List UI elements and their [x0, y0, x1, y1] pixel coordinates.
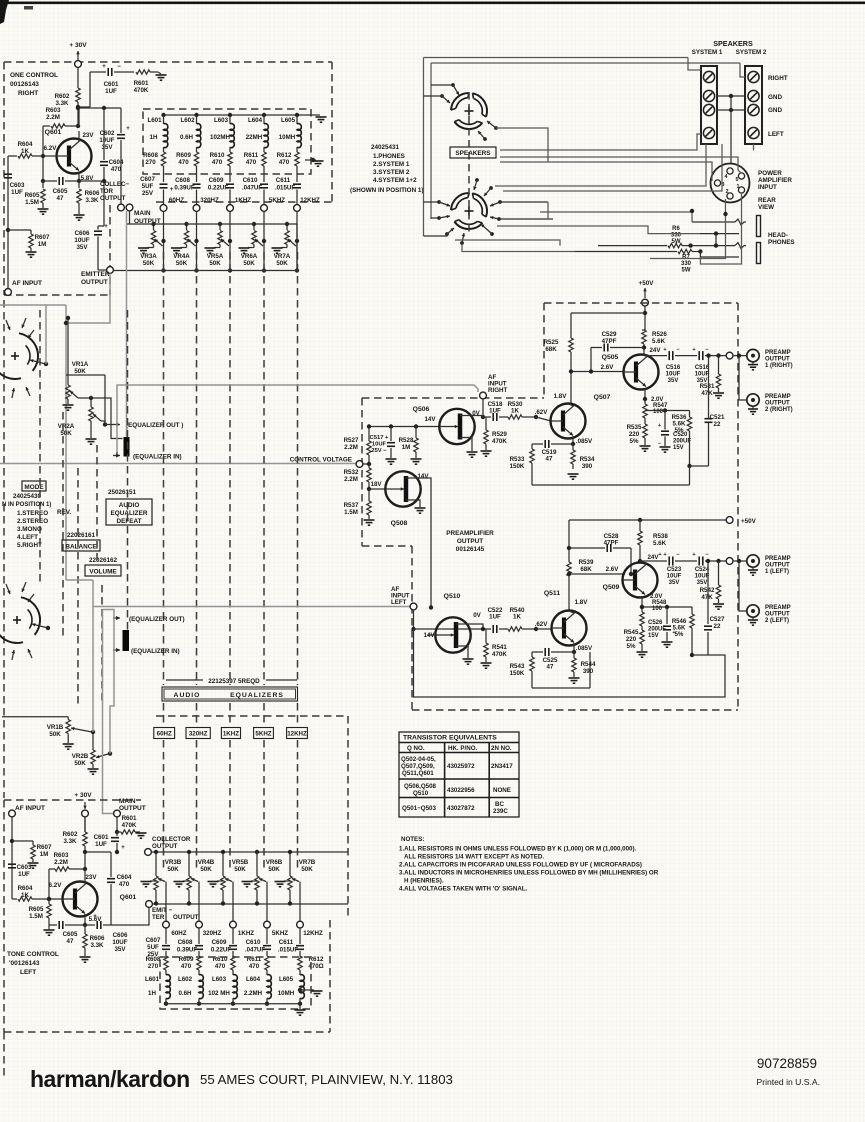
- wire eq arrows riser bottom: [103, 610, 115, 654]
- resistor R538 5.6K: [639, 520, 641, 531]
- svg-text:REV.: REV.: [57, 509, 71, 516]
- terminal COLLECTOR OUTPUT bottom: [145, 849, 152, 856]
- svg-text:PHONES: PHONES: [768, 239, 795, 246]
- DIN pin 1: [738, 187, 744, 193]
- svg-text:SYSTEM 2: SYSTEM 2: [736, 49, 767, 56]
- svg-text:Q501−Q503: Q501−Q503: [402, 805, 436, 812]
- svg-text:(SHOWN IN POSITION 1): (SHOWN IN POSITION 1): [350, 187, 423, 194]
- svg-text:.62V: .62V: [535, 621, 549, 628]
- switch contact arrow: [451, 83, 455, 87]
- svg-text:22: 22: [714, 421, 721, 428]
- svg-text:1M: 1M: [40, 851, 49, 858]
- potentiometer VR5A 50K: [219, 224, 221, 230]
- svg-text:AUDIO: AUDIO: [119, 502, 140, 509]
- svg-text:1 (RIGHT): 1 (RIGHT): [765, 363, 793, 369]
- svg-text:.085V: .085V: [576, 645, 593, 652]
- svg-text:23V: 23V: [85, 874, 97, 881]
- svg-text:+: +: [663, 347, 666, 353]
- resistor R541 470K: [485, 629, 487, 643]
- eq column wire 60HZ: [163, 211, 165, 270]
- ground VR3A: [138, 247, 149, 249]
- svg-text:OUTPUT: OUTPUT: [457, 538, 483, 545]
- svg-text:POWER: POWER: [758, 170, 782, 177]
- inductor L605 10MH: [295, 113, 299, 117]
- resistor R607 1M: [8, 229, 31, 231]
- svg-text:R546: R546: [672, 619, 687, 625]
- switch contact arrow: [445, 232, 449, 236]
- svg-text:5%: 5%: [675, 427, 684, 434]
- terminal eq column 320HZ: [193, 205, 200, 212]
- branch bootstrap left: [642, 606, 692, 608]
- svg-text:C608: C608: [178, 939, 193, 946]
- svg-text:3.3K: 3.3K: [85, 197, 99, 204]
- wire to jack 2 left: [739, 561, 746, 611]
- capacitor C602 10UF 35V: [120, 108, 122, 133]
- potentiometer VR6A 50K: [253, 224, 255, 230]
- wire Q511 emitter: [573, 643, 575, 652]
- svg-text:2.2M: 2.2M: [344, 444, 358, 451]
- screw terminal: [748, 90, 759, 101]
- svg-text:R606: R606: [85, 190, 100, 197]
- branch to bootstrap right: [645, 410, 690, 412]
- svg-text:R7: R7: [682, 255, 690, 261]
- svg-text:VR7A: VR7A: [274, 253, 291, 260]
- svg-text:VR1B: VR1B: [47, 724, 64, 731]
- svg-text:43022956: 43022956: [447, 787, 475, 794]
- svg-text:TRANSISTOR EQUIVALENTS: TRANSISTOR EQUIVALENTS: [403, 735, 497, 742]
- resistor R601 470K bottom: [117, 831, 121, 833]
- svg-text:C607: C607: [146, 937, 161, 944]
- switch contact arrow: [437, 216, 441, 220]
- ground R607 bottom: [28, 862, 39, 864]
- svg-text:R537: R537: [344, 502, 359, 509]
- wire Q509 base: [569, 573, 625, 575]
- svg-text:50K: 50K: [276, 260, 288, 267]
- svg-text:C601: C601: [94, 834, 109, 841]
- svg-text:AMPLIFIER: AMPLIFIER: [758, 177, 792, 184]
- jack PREAMP OUTPUT 2 RIGHT: [747, 394, 759, 406]
- equalizer linkage dashed lines: [127, 310, 129, 645]
- svg-text:+: +: [663, 552, 666, 558]
- svg-text:OUTPUT: OUTPUT: [119, 805, 146, 812]
- svg-text:35V: 35V: [114, 946, 126, 953]
- svg-text:ONE CONTROL: ONE CONTROL: [10, 72, 58, 79]
- terminal preamp output left: [726, 558, 733, 565]
- ground R528: [411, 458, 422, 460]
- FET Q506: [439, 409, 474, 444]
- svg-text:1UF: 1UF: [105, 88, 117, 95]
- svg-text:50K: 50K: [74, 368, 86, 375]
- potentiometer VR4A 50K: [186, 224, 188, 230]
- svg-text:50K: 50K: [243, 260, 255, 267]
- svg-text:R545: R545: [624, 629, 639, 636]
- svg-text:VR2A: VR2A: [58, 423, 75, 430]
- wire +50V top rail right: [571, 312, 645, 314]
- svg-text:OUTPUT: OUTPUT: [765, 611, 790, 617]
- feedback wire left channel 2: [414, 629, 726, 697]
- potentiometer VR2A 50K: [78, 398, 91, 407]
- wire Q508 gate: [369, 488, 385, 490]
- capacitor C524 10UF 35V: [698, 557, 700, 566]
- svg-text:−: −: [676, 552, 679, 558]
- svg-text:+50V: +50V: [741, 518, 757, 525]
- ground R607: [26, 251, 37, 253]
- svg-text:VR7B: VR7B: [299, 859, 316, 866]
- terminal eq column 12KHZ bottom: [297, 921, 304, 928]
- svg-text:COLLEC−: COLLEC−: [100, 181, 129, 188]
- wire main-output riser bottom: [103, 610, 114, 814]
- svg-text:1.5M: 1.5M: [344, 509, 358, 516]
- svg-text:C516: C516: [695, 365, 710, 371]
- terminal eq column 60HZ: [160, 205, 167, 212]
- capacitor C527 22: [690, 653, 694, 657]
- equalizer defeat switch bar (bottom): [123, 630, 130, 651]
- svg-text:R535: R535: [627, 424, 642, 431]
- svg-text:25026151: 25026151: [108, 489, 137, 496]
- svg-text:H (HENRIES).: H (HENRIES).: [404, 878, 444, 885]
- svg-text:+: +: [104, 224, 108, 230]
- svg-text:N IN POSITION 1): N IN POSITION 1): [2, 502, 51, 508]
- wire main output bottom entry: [116, 809, 118, 811]
- svg-text:50K: 50K: [60, 430, 72, 437]
- ground VR4B: [183, 880, 189, 882]
- resistor R527 2.2M: [368, 427, 370, 442]
- ground VR6B: [251, 880, 257, 882]
- svg-text:R532: R532: [344, 469, 359, 476]
- terminal AF input right: [480, 392, 487, 399]
- inductor L602 0.6H bottom: [199, 975, 203, 999]
- svg-text:OUTPUT: OUTPUT: [765, 356, 790, 362]
- svg-text:5.6K: 5.6K: [673, 625, 686, 631]
- svg-text:R541: R541: [492, 644, 507, 651]
- svg-text:−: −: [676, 347, 679, 353]
- equalizer defeat switch bar (top): [124, 437, 130, 457]
- wiper riser terminal 320HZ: [198, 882, 200, 922]
- wire AF input bottom riser: [11, 817, 13, 899]
- wire headphone feed 2: [497, 226, 700, 234]
- svg-text:R602: R602: [63, 831, 78, 838]
- wire emitter bus bottom: [152, 903, 348, 905]
- wire speakers right feed: [495, 144, 706, 186]
- svg-text:4.SYSTEM 1+2: 4.SYSTEM 1+2: [373, 177, 417, 184]
- svg-text:1KHZ: 1KHZ: [235, 197, 251, 204]
- inductor L601 1H: [161, 113, 165, 117]
- svg-text:(EQUALIZER IN): (EQUALIZER IN): [131, 648, 180, 655]
- wire defeat bar to VR2B wiper: [110, 653, 114, 754]
- svg-text:470: 470: [178, 159, 189, 166]
- ground R601: [158, 72, 161, 74]
- eq column wire 5KHZ: [263, 211, 265, 270]
- svg-text:50K: 50K: [301, 866, 313, 873]
- svg-text:C605: C605: [63, 931, 78, 938]
- svg-text:R605: R605: [25, 192, 40, 199]
- transistor Q505: [624, 355, 659, 390]
- resistor R601 470K: [136, 70, 150, 74]
- capacitor C525 47: [551, 651, 574, 653]
- wire Q505 collector: [643, 354, 645, 356]
- transistor Q511: [552, 611, 587, 646]
- capacitor C609 0.22UF: [226, 183, 234, 185]
- headphone jack 2: [691, 245, 735, 247]
- corner registration mark: [0, 0, 9, 24]
- svg-text:22026161: 22026161: [67, 532, 96, 539]
- capacitor C601 1UF: [90, 71, 106, 73]
- svg-text:24025430: 24025430: [13, 493, 42, 500]
- eq column wire 320HZ: [196, 211, 198, 270]
- wire rotary2 contact runs: [547, 202, 549, 219]
- capacitor C605 47: [58, 177, 60, 185]
- wire Q508 drain riser: [418, 478, 431, 608]
- ground VR3B: [150, 880, 156, 882]
- svg-text:47PF: 47PF: [602, 338, 617, 345]
- resistor R604 1K bottom: [12, 898, 17, 900]
- ground C520: [660, 446, 671, 448]
- wire rotary1 contact runs: [496, 128, 548, 162]
- capacitor C608 0.39UF: [193, 183, 201, 185]
- resistor R533 150K: [531, 444, 533, 449]
- svg-text:RIGHT: RIGHT: [18, 90, 38, 97]
- svg-text:SYSTEM 1: SYSTEM 1: [692, 49, 723, 56]
- terminal eq column 12KHZ: [294, 205, 301, 212]
- resistor R526 5.6K: [643, 311, 647, 315]
- svg-text:R609: R609: [176, 152, 191, 159]
- resistor R546 5.6K 5%: [691, 607, 693, 614]
- svg-text:L602: L602: [180, 117, 195, 124]
- svg-text:1M: 1M: [402, 444, 411, 451]
- potentiometer VR1B 50K: [66, 720, 70, 734]
- svg-text:12KHZ: 12KHZ: [287, 731, 307, 738]
- svg-text:Q601: Q601: [45, 129, 62, 136]
- svg-text:Q502-04-05,: Q502-04-05,: [401, 756, 436, 763]
- ground VR7B: [284, 880, 290, 882]
- inductor L603 102 MH bottom: [233, 975, 237, 999]
- svg-text:C611: C611: [279, 939, 294, 946]
- svg-text:5%: 5%: [675, 632, 684, 638]
- svg-text:5KHZ: 5KHZ: [269, 197, 285, 204]
- jack PREAMP OUTPUT 1 LEFT: [747, 555, 759, 567]
- svg-text:50K: 50K: [143, 260, 155, 267]
- terminal +50V left: [726, 517, 733, 524]
- ground C517: [386, 458, 397, 460]
- FET Q510: [435, 617, 470, 652]
- ground R606 bottom: [80, 956, 91, 958]
- svg-text:C523: C523: [667, 567, 682, 573]
- DIN pin 2: [727, 193, 733, 199]
- svg-text:R531: R531: [700, 383, 715, 390]
- svg-text:R529: R529: [492, 431, 507, 438]
- resistor R609 470: [196, 147, 198, 152]
- svg-text:50K: 50K: [49, 731, 61, 738]
- resistor R606 3.3K bottom: [84, 925, 86, 934]
- wire Q511 collector: [569, 611, 574, 613]
- wire VR2B wiper: [108, 751, 112, 755]
- svg-text:R603: R603: [46, 107, 61, 114]
- svg-text:AF INPUT: AF INPUT: [15, 805, 45, 812]
- equalizer in arrow (bottom): [113, 649, 120, 651]
- terminal +30V bottom: [82, 810, 89, 817]
- svg-text:C527: C527: [710, 616, 725, 623]
- wire Q510 drain: [468, 624, 483, 629]
- terminal AF INPUT: [5, 289, 12, 296]
- svg-text:390: 390: [582, 463, 593, 470]
- svg-text:R607: R607: [37, 844, 52, 851]
- svg-text:1H: 1H: [150, 134, 158, 141]
- svg-text:LEFT: LEFT: [768, 131, 784, 138]
- svg-text:R604: R604: [18, 885, 33, 892]
- ground Q508 source: [415, 507, 426, 509]
- svg-text:Q506,Q508: Q506,Q508: [404, 783, 437, 790]
- svg-text:C521: C521: [710, 414, 725, 421]
- svg-text:1UF: 1UF: [489, 614, 501, 621]
- ground R605 bottom: [44, 929, 55, 931]
- svg-text:C606: C606: [75, 230, 90, 237]
- svg-text:47K: 47K: [701, 390, 713, 397]
- svg-text:EMIT −: EMIT −: [152, 907, 172, 914]
- resistor R536 5.6K 5%: [689, 411, 691, 418]
- jack PREAMP OUTPUT 1 RIGHT: [747, 349, 759, 361]
- label box SPEAKERS: [450, 147, 496, 158]
- node R602/R603 junction: [76, 105, 80, 109]
- capacitor C521 22: [687, 464, 691, 468]
- switch contact arrow: [440, 94, 444, 98]
- capacitor C601 1UF bottom: [116, 832, 118, 836]
- svg-text:C601: C601: [104, 81, 119, 88]
- svg-text:470: 470: [212, 159, 223, 166]
- svg-text:470K: 470K: [492, 651, 507, 658]
- svg-text:C526: C526: [648, 620, 663, 626]
- mode lower contact arrows: [6, 584, 10, 594]
- wire Q507 emitter: [572, 436, 574, 444]
- switch contact arrow: [460, 241, 464, 245]
- wire Q601L collector: [84, 852, 86, 884]
- svg-text:6.2V: 6.2V: [49, 882, 63, 889]
- svg-text:1.8V: 1.8V: [554, 393, 568, 400]
- svg-text:VR5B: VR5B: [232, 859, 249, 866]
- svg-text:1.ALL RESISTORS IN OHMS UNLES: 1.ALL RESISTORS IN OHMS UNLESS FOLLOWED …: [399, 846, 637, 853]
- svg-text:R611: R611: [244, 152, 259, 159]
- svg-text:ALL RESISTORS 1/4 WATT EXCEPT: ALL RESISTORS 1/4 WATT EXCEPT AS NOTED.: [404, 854, 544, 861]
- svg-text:OUTPUT: OUTPUT: [173, 914, 199, 921]
- wire to system1 left: [500, 134, 701, 150]
- capacitor C611 .015UF bottom: [296, 945, 304, 947]
- resistor R606 3.3K: [78, 181, 80, 188]
- svg-text:10UF: 10UF: [74, 237, 89, 244]
- svg-text:R533: R533: [510, 456, 525, 463]
- svg-text:R543: R543: [510, 663, 525, 670]
- wire mode wiper to volume rail: [46, 305, 66, 364]
- svg-text:4.LEFT: 4.LEFT: [17, 534, 38, 541]
- svg-text:+: +: [658, 423, 661, 429]
- svg-text:MAIN: MAIN: [134, 210, 151, 217]
- svg-text:CONTROL VOLTAGE: CONTROL VOLTAGE: [290, 457, 352, 464]
- svg-text:R606: R606: [90, 935, 105, 942]
- svg-text:VR4B: VR4B: [198, 859, 215, 866]
- wire AF input left run: [66, 579, 93, 581]
- svg-text:2.2M: 2.2M: [46, 114, 60, 121]
- svg-text:50K: 50K: [234, 866, 246, 873]
- svg-text:PREAMPLIFIER: PREAMPLIFIER: [446, 530, 494, 537]
- svg-text:C602: C602: [100, 130, 115, 137]
- wire Q510 source: [467, 646, 469, 658]
- svg-text:1K: 1K: [513, 614, 521, 621]
- gate bias rail Q506: [369, 426, 440, 428]
- svg-text:25V: 25V: [142, 190, 154, 197]
- dashed enclosure - tone control right / equalizer board (top): [4, 61, 332, 63]
- terminal eq column 320HZ bottom: [196, 921, 203, 928]
- svg-text:PREAMP: PREAMP: [765, 556, 791, 562]
- transistor Q601 (right): [57, 139, 92, 174]
- svg-text:harman/kardon: harman/kardon: [30, 1066, 190, 1092]
- feedback wire right channel: [532, 484, 690, 486]
- FET Q508: [385, 471, 420, 506]
- bottom bus emitter-output: [113, 270, 297, 272]
- mode switch contact arrows: [6, 320, 10, 330]
- capacitor C526 200UF 15V: [666, 607, 668, 624]
- svg-text:15V: 15V: [673, 445, 684, 451]
- svg-text:24025431: 24025431: [371, 144, 400, 151]
- svg-text:C604: C604: [109, 159, 124, 166]
- svg-text:43027872: 43027872: [447, 805, 475, 812]
- ground R605: [38, 208, 49, 210]
- svg-text:Printed in U.S.A.: Printed in U.S.A.: [756, 1077, 820, 1087]
- ground VR5A: [205, 247, 216, 249]
- wire speakers right feed 2: [503, 144, 722, 191]
- svg-text:AF INPUT: AF INPUT: [12, 280, 42, 287]
- svg-text:LEFT: LEFT: [391, 599, 407, 606]
- svg-text:00126143: 00126143: [10, 81, 39, 88]
- potentiometer VR7A 50K: [286, 224, 288, 230]
- svg-text:470K: 470K: [492, 438, 507, 445]
- dashed enclosure tone control left (bottom): [4, 799, 141, 801]
- svg-text:47K: 47K: [701, 594, 713, 601]
- svg-text:470: 470: [111, 166, 122, 173]
- ground VR1B: [63, 743, 74, 745]
- inductor L601 1H bottom: [166, 975, 170, 999]
- label box AUDIO EQUALIZERS (double border): [162, 687, 298, 701]
- wire base-bias left rail: [42, 126, 44, 181]
- svg-text:+: +: [692, 347, 695, 353]
- svg-text:3.ALL INDUCTORS IN MICROHENRI: 3.ALL INDUCTORS IN MICROHENRIES UNLESS F…: [399, 870, 659, 877]
- svg-text:R528: R528: [399, 437, 414, 444]
- inductor L604 2.2MH bottom: [267, 975, 271, 999]
- wire VR1B top feed: [2, 716, 68, 718]
- svg-text:VR6A: VR6A: [241, 253, 258, 260]
- wire emitter-output run to mode area: [66, 273, 110, 323]
- svg-text:47: 47: [547, 664, 554, 671]
- resistor R602 3.3K bottom: [83, 832, 87, 846]
- page top edge scan line: [0, 2, 865, 5]
- svg-text:23V: 23V: [82, 132, 94, 139]
- svg-text:5W: 5W: [682, 268, 691, 274]
- svg-text:0V: 0V: [473, 612, 481, 619]
- svg-text:270: 270: [145, 159, 156, 166]
- svg-text:Q510: Q510: [413, 790, 429, 797]
- resistor R525 68K: [570, 313, 572, 338]
- svg-text:2.2M: 2.2M: [54, 859, 68, 866]
- terminal AF input left: [410, 603, 417, 610]
- svg-text:R538: R538: [653, 533, 668, 540]
- gnd link wires between strips: [717, 95, 745, 97]
- screw terminal: [703, 90, 714, 101]
- svg-text:TER: TER: [152, 914, 165, 921]
- svg-text:Q NO.: Q NO.: [407, 745, 425, 752]
- svg-text:10UF: 10UF: [372, 441, 387, 447]
- svg-text:C517 +: C517 +: [370, 435, 389, 441]
- ground VR4A: [171, 247, 182, 249]
- wire Q507 collector: [569, 404, 573, 406]
- svg-text:TONE CONTROL: TONE CONTROL: [7, 951, 59, 958]
- svg-text:.62V: .62V: [535, 409, 549, 416]
